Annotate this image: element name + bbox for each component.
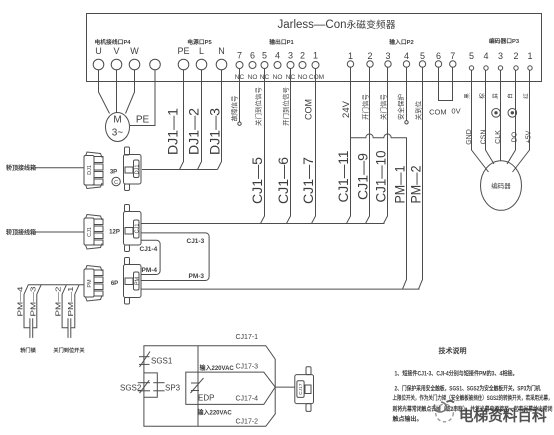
svg-text:0V: 0V <box>451 107 460 116</box>
svg-text:W: W <box>130 46 139 56</box>
svg-text:PM—4: PM—4 <box>16 287 25 317</box>
svg-text:DJ1—2: DJ1—2 <box>186 108 202 155</box>
svg-text:NO: NO <box>273 74 283 81</box>
svg-text:U: U <box>95 46 102 56</box>
svg-text:2: 2 <box>367 51 372 61</box>
svg-text:SGS2: SGS2 <box>120 384 142 393</box>
svg-text:CJ17-1: CJ17-1 <box>236 334 259 341</box>
svg-text:关到位: 关到位 <box>414 100 423 120</box>
svg-text:DJ1—3: DJ1—3 <box>206 108 222 155</box>
svg-text:红: 红 <box>522 93 530 99</box>
svg-text:轿顶接线箱: 轿顶接线箱 <box>6 228 36 236</box>
svg-text:关门信号: 关门信号 <box>379 94 388 121</box>
svg-text:7: 7 <box>237 51 242 61</box>
svg-text:CJ17: CJ17 <box>298 383 304 395</box>
svg-text:DJ1: DJ1 <box>87 165 93 175</box>
svg-text:屏: 屏 <box>493 93 500 99</box>
svg-text:PM—3: PM—3 <box>29 287 38 317</box>
svg-text:2、门保护采用安全触板，SGS1、SGS2为安全触板开关，S: 2、门保护采用安全触板，SGS1、SGS2为安全触板开关，SP3为门机 <box>395 385 541 393</box>
svg-text:CJ1-4: CJ1-4 <box>140 246 158 253</box>
svg-text:关门到位信号: 关门到位信号 <box>254 87 263 127</box>
svg-text:编码器: 编码器 <box>491 181 511 190</box>
svg-text:电机接线口P4: 电机接线口P4 <box>94 38 131 46</box>
svg-text:输入220VAC: 输入220VAC <box>198 408 233 416</box>
svg-text:3: 3 <box>498 51 503 61</box>
svg-text:3P: 3P <box>110 169 117 175</box>
svg-text:N: N <box>218 46 225 56</box>
svg-text:3: 3 <box>385 51 390 61</box>
svg-text:EDP: EDP <box>198 394 214 403</box>
svg-text:3: 3 <box>288 51 293 61</box>
svg-text:7: 7 <box>450 51 455 61</box>
svg-text:故障信号: 故障信号 <box>229 95 238 122</box>
svg-text:2: 2 <box>300 51 305 61</box>
svg-text:电梯资料百科: 电梯资料百科 <box>459 407 547 425</box>
svg-text:输入口P2: 输入口P2 <box>389 38 413 46</box>
svg-text:M: M <box>113 115 121 126</box>
svg-text:DJ1: DJ1 <box>134 165 140 175</box>
svg-text:DJ1—1: DJ1—1 <box>164 108 180 155</box>
svg-text:PM—2: PM—2 <box>408 165 424 203</box>
svg-text:编码器口P3: 编码器口P3 <box>489 37 520 45</box>
svg-text:CJ1—11: CJ1—11 <box>335 150 351 202</box>
svg-text:5: 5 <box>420 51 425 61</box>
svg-text:CJ17-4: CJ17-4 <box>236 395 259 402</box>
svg-text:CJ1: CJ1 <box>87 227 93 237</box>
svg-text:CJ1—10: CJ1—10 <box>373 150 389 202</box>
svg-text:技术说明: 技术说明 <box>439 346 467 355</box>
svg-text:SP3: SP3 <box>165 384 181 393</box>
svg-text:+5V: +5V <box>525 130 532 143</box>
svg-text:4: 4 <box>275 51 280 61</box>
svg-text:CJ1—7: CJ1—7 <box>300 157 316 204</box>
svg-text:4: 4 <box>404 51 409 61</box>
svg-text:安全保护: 安全保护 <box>396 94 405 120</box>
svg-text:12P: 12P <box>109 229 120 235</box>
svg-text:上限位开关，作为关门力矩（安全触板被挡住）SGS2的转换开关: 上限位开关，作为关门力矩（安全触板被挡住）SGS2的转换开关，若采用光幕， <box>393 394 553 402</box>
svg-text:6P: 6P <box>111 281 118 287</box>
svg-text:6: 6 <box>250 51 255 61</box>
svg-text:L: L <box>199 46 204 56</box>
svg-text:PM: PM <box>87 279 93 288</box>
svg-text:COM: COM <box>304 99 314 120</box>
svg-text:PM—1: PM—1 <box>66 287 75 317</box>
svg-text:V: V <box>113 46 119 56</box>
svg-text:PM-3: PM-3 <box>189 273 205 280</box>
svg-text:电源口P5: 电源口P5 <box>187 38 212 46</box>
svg-text:开门信号: 开门信号 <box>360 94 369 121</box>
svg-text:3~: 3~ <box>112 128 124 139</box>
svg-text:4: 4 <box>483 51 488 61</box>
svg-text:触点输出。: 触点输出。 <box>392 415 423 423</box>
svg-text:PM—1: PM—1 <box>392 165 408 203</box>
svg-text:Jarless—Con永磁变频器: Jarless—Con永磁变频器 <box>277 18 395 31</box>
svg-text:5: 5 <box>262 51 267 61</box>
svg-text:SGS1: SGS1 <box>151 357 173 366</box>
svg-text:PE: PE <box>136 115 150 126</box>
svg-text:COM: COM <box>429 108 447 117</box>
svg-text:CJ1: CJ1 <box>134 224 140 234</box>
svg-text:白: 白 <box>506 93 514 99</box>
svg-text:CJ1—5: CJ1—5 <box>249 157 265 204</box>
svg-text:关门到位开关: 关门到位开关 <box>53 346 85 354</box>
svg-text:PM-4: PM-4 <box>142 267 158 274</box>
svg-text:2: 2 <box>513 51 518 61</box>
svg-text:24V: 24V <box>341 100 352 118</box>
svg-text:NO: NO <box>298 74 308 81</box>
svg-text:棕: 棕 <box>478 93 486 99</box>
svg-text:输出口P1: 输出口P1 <box>269 38 294 46</box>
svg-text:1: 1 <box>527 51 532 61</box>
svg-text:CJ17-2: CJ17-2 <box>236 418 259 425</box>
svg-text:黑: 黑 <box>464 93 471 99</box>
svg-text:CJ1—6: CJ1—6 <box>275 157 291 204</box>
svg-text:CSN: CSN <box>481 130 488 145</box>
svg-text:CJ1-3: CJ1-3 <box>187 238 205 245</box>
svg-text:1: 1 <box>348 51 353 61</box>
svg-text:GND: GND <box>466 129 473 145</box>
svg-text:PM—2: PM—2 <box>54 287 63 317</box>
svg-text:6: 6 <box>436 51 441 61</box>
svg-text:DO: DO <box>512 131 519 142</box>
svg-text:1: 1 <box>313 51 318 61</box>
svg-text:输入220VAC: 输入220VAC <box>200 364 235 372</box>
svg-text:PE: PE <box>177 46 189 56</box>
svg-text:NO: NO <box>248 74 258 81</box>
svg-text:CJ1—9: CJ1—9 <box>355 153 371 200</box>
svg-text:PM: PM <box>134 276 140 285</box>
svg-text:轿门锁: 轿门锁 <box>20 346 36 354</box>
svg-text:C: C <box>114 180 118 186</box>
svg-text:1、短接件CJ1-3、CJI-4分别与短接件PM的3、4相接: 1、短接件CJ1-3、CJI-4分别与短接件PM的3、4相接。 <box>395 370 518 378</box>
svg-text:CJ17-3: CJ17-3 <box>236 364 259 371</box>
svg-text:开门到位信号: 开门到位信号 <box>281 87 290 127</box>
svg-text:COM: COM <box>309 74 324 81</box>
svg-text:5: 5 <box>469 51 474 61</box>
svg-text:轿顶接线箱: 轿顶接线箱 <box>6 164 36 172</box>
svg-text:CLK: CLK <box>495 130 502 144</box>
